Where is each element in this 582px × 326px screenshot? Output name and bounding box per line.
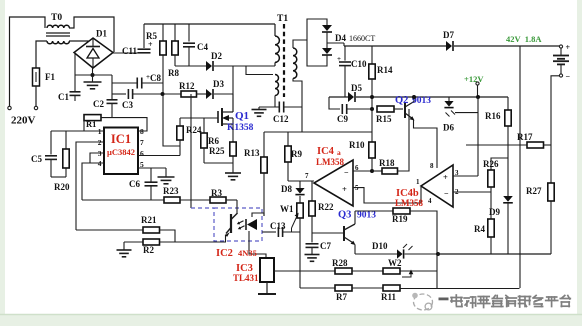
wire sense row [438, 253, 551, 255]
wire secondary rail [344, 45, 446, 47]
label C8 [150, 73, 161, 83]
transformer T1 primary [275, 24, 279, 66]
wire pin2 [76, 142, 104, 230]
wire top rail [144, 23, 275, 25]
pin 7 IC4a [305, 172, 309, 180]
svg-text:Q3: Q3 [338, 210, 351, 221]
wire clamp column [232, 66, 234, 112]
wire pin1 row [51, 130, 104, 132]
svg-text:D5: D5 [351, 83, 362, 93]
label W1 [280, 204, 294, 214]
label D5 [351, 83, 362, 93]
resistor R15 [372, 106, 403, 112]
label IC3 [233, 263, 259, 283]
resistor R1 [84, 115, 147, 131]
svg-text:IC1: IC1 [111, 132, 131, 146]
wire pin6 row2 [353, 169, 374, 173]
wire common rail [264, 131, 372, 133]
svg-text:C13: C13 [270, 221, 286, 231]
svg-text:R24: R24 [186, 125, 202, 135]
ground T1 aux [252, 107, 267, 116]
label C11 [122, 46, 138, 56]
wire 12V down [477, 97, 479, 176]
pin 8 [140, 127, 144, 136]
label D10 [372, 241, 388, 251]
capacitor C5 [45, 131, 57, 177]
resistor R12 [181, 91, 206, 97]
svg-text:C3: C3 [122, 100, 133, 110]
pin 4 [98, 159, 102, 168]
svg-text:C11: C11 [122, 46, 138, 56]
label F1 [45, 72, 55, 82]
resistor R7 [335, 285, 383, 291]
svg-text:IC2: IC2 [216, 248, 233, 259]
label R16 [485, 111, 501, 121]
wire vcc row [112, 93, 126, 95]
bridge rectifier D1 [74, 38, 113, 68]
pin 1 [98, 127, 104, 136]
svg-text:1660CT: 1660CT [349, 34, 375, 43]
shunt reg IC3 [258, 258, 276, 294]
svg-text:Q2: Q2 [395, 95, 408, 106]
resistor R25 [230, 124, 236, 173]
resistor R18 [372, 109, 409, 174]
LED IC2 [237, 213, 266, 258]
wire pin3 row [453, 175, 478, 177]
label R18 [379, 158, 395, 168]
label +12V [464, 74, 484, 84]
svg-text:−: − [566, 72, 571, 81]
wire pin4 [82, 163, 104, 200]
ground C7 [305, 255, 320, 262]
pin 3 [98, 149, 102, 158]
capacitor C4 [183, 24, 195, 66]
capacitor C11 [138, 24, 154, 53]
svg-text:R8: R8 [168, 68, 179, 78]
svg-text:+: + [443, 172, 448, 182]
svg-text:C6: C6 [129, 179, 140, 189]
label R28 [332, 258, 348, 268]
svg-text:F1: F1 [45, 72, 55, 82]
wire primary gnd row [75, 74, 112, 76]
diode D5 [348, 92, 508, 102]
pin 3 IC4b [455, 169, 459, 177]
svg-text:+: + [148, 40, 153, 49]
label D9 [489, 207, 500, 217]
resistor R3 [180, 197, 237, 203]
label IC4a [316, 146, 344, 167]
resistor R28 [335, 268, 383, 274]
label D8 [281, 184, 292, 194]
svg-text:7: 7 [140, 138, 144, 147]
svg-text:D7: D7 [443, 30, 454, 40]
pin 6 [140, 149, 144, 158]
resistor R17 [466, 142, 551, 148]
wire pin5 gnd [138, 167, 166, 169]
label R19 [392, 214, 408, 224]
svg-text:42V 1.8A: 42V 1.8A [506, 34, 542, 44]
label D2 [211, 51, 222, 61]
label D3 [213, 79, 224, 89]
diode D7 [446, 41, 561, 51]
svg-text:−: − [444, 189, 449, 198]
label R4 [474, 224, 485, 234]
svg-text:R28: R28 [332, 258, 348, 268]
junction 12V [476, 95, 480, 99]
watermark text [451, 295, 570, 308]
label R10 [349, 140, 365, 150]
svg-text:R6: R6 [208, 136, 219, 146]
svg-text:T1: T1 [277, 14, 288, 24]
resistor R2 [124, 239, 226, 245]
svg-text:+: + [337, 55, 341, 63]
label R17 [517, 132, 533, 142]
label Q1 [227, 110, 254, 133]
svg-text:W2: W2 [388, 258, 402, 268]
svg-text:R20: R20 [54, 182, 70, 192]
label IC4b [395, 188, 423, 208]
label R1 [86, 119, 96, 129]
optocoupler IC2 box [191, 208, 262, 241]
capacitor C13 [262, 227, 300, 237]
label IC2 [216, 248, 257, 259]
svg-text:R25: R25 [209, 146, 225, 156]
svg-text:8: 8 [430, 162, 434, 170]
label R6 [208, 136, 219, 146]
resistor R16 [505, 97, 511, 196]
transformer T1 secondary [293, 40, 307, 132]
svg-text:R15: R15 [376, 114, 392, 124]
pot W1 [292, 203, 304, 288]
svg-text:D6: D6 [443, 123, 454, 133]
label C6 [129, 179, 140, 189]
svg-text:C1: C1 [58, 92, 69, 102]
label IC1 [107, 132, 135, 157]
svg-text:−: − [344, 168, 349, 177]
junction [161, 92, 165, 96]
resistor R4 [488, 192, 494, 254]
pin 5 [140, 160, 144, 169]
svg-text:R19: R19 [392, 214, 408, 224]
label C5 [31, 154, 42, 164]
svg-text:D1: D1 [96, 29, 107, 39]
label R8 [168, 68, 179, 78]
label 220V [11, 115, 36, 127]
label 42V [506, 34, 542, 44]
svg-text:LM358: LM358 [395, 198, 423, 208]
svg-text:D2: D2 [211, 51, 222, 61]
svg-text:C2: C2 [93, 99, 104, 109]
svg-text:7: 7 [305, 172, 309, 180]
label R11 [381, 292, 397, 302]
terminal battery plus [559, 43, 570, 52]
capacitor C2 [107, 75, 118, 118]
ground R2 [117, 242, 132, 257]
svg-text:R9: R9 [291, 149, 302, 159]
svg-text:R1: R1 [86, 119, 96, 129]
svg-text:R23: R23 [163, 186, 179, 196]
junction D10 [436, 252, 440, 256]
label C12 [273, 114, 289, 124]
label R22 [318, 202, 334, 212]
pin 2 IC4b [455, 188, 459, 196]
svg-text:IC4: IC4 [317, 146, 335, 157]
diode D2 [206, 61, 275, 71]
svg-text:R4: R4 [474, 224, 485, 234]
svg-text:+: + [566, 43, 571, 52]
svg-text:R5: R5 [146, 31, 157, 41]
label C2 [93, 99, 104, 109]
capacitor C3 [128, 89, 181, 99]
label R25 [209, 146, 225, 156]
wire pin6 row [138, 146, 180, 156]
svg-text:9013: 9013 [357, 211, 376, 221]
svg-text:1: 1 [416, 178, 420, 186]
svg-text:6: 6 [140, 149, 144, 158]
watermark logo [412, 293, 448, 310]
wire vcc to opto [190, 94, 192, 208]
label W2 [388, 258, 402, 268]
transistor Q2 [405, 97, 437, 168]
label Q2 [395, 95, 431, 106]
capacitor C9 [329, 97, 374, 114]
label R15 [376, 114, 392, 124]
label R12 [179, 81, 195, 91]
svg-text:C4: C4 [197, 42, 208, 52]
label R20 [54, 182, 70, 192]
svg-text:+: + [342, 184, 347, 194]
op-amp U2A IC4a [314, 160, 353, 206]
resistor R5 [160, 24, 166, 94]
terminal AC L [8, 106, 11, 109]
wire snubber row [175, 65, 206, 67]
zener D6 [444, 97, 478, 117]
resistor R26 [488, 158, 508, 192]
svg-text:C9: C9 [337, 114, 348, 124]
svg-text:4N35: 4N35 [238, 248, 257, 258]
svg-text:C5: C5 [31, 154, 42, 164]
capacitor C6 [145, 168, 158, 200]
pin 7 [140, 138, 144, 147]
label R7 [336, 292, 347, 302]
terminal battery minus [551, 72, 571, 254]
svg-text:R7: R7 [336, 292, 347, 302]
resistor R11 [383, 285, 520, 291]
label T0 [51, 13, 62, 23]
label R24 [186, 125, 202, 135]
wire pin7 row [288, 181, 314, 183]
diode D10 [355, 244, 438, 259]
wire pin5 link [353, 187, 421, 203]
svg-text:D3: D3 [213, 79, 224, 89]
label C9 [337, 114, 348, 124]
resistor R27 [548, 183, 554, 201]
transformer T0 [36, 17, 114, 68]
svg-text:C10: C10 [351, 59, 367, 69]
wire aux rail [329, 96, 348, 98]
svg-text:R17: R17 [517, 132, 533, 142]
wire aux link [246, 66, 273, 75]
capacitor C12 [259, 102, 302, 113]
label R13 [244, 148, 260, 158]
svg-text:R21: R21 [141, 215, 157, 225]
label D4 [335, 33, 375, 43]
diode D4 [307, 19, 344, 66]
svg-text:W1: W1 [280, 204, 294, 214]
label R5 [146, 31, 157, 41]
junction R14 [370, 95, 374, 99]
wire IC3 row [274, 270, 335, 272]
resistor R24 [177, 118, 183, 146]
capacitor C8 [112, 73, 163, 89]
resistor R19 [355, 208, 437, 254]
IC U1 box [104, 128, 138, 175]
ground R25 [225, 173, 241, 180]
svg-text:R16: R16 [485, 111, 501, 121]
wire pin5 col to row [0, 0, 1, 1]
resistor R6 [201, 118, 233, 163]
svg-text:R26: R26 [483, 159, 499, 169]
transistor Q1 mosfet [218, 94, 233, 126]
svg-text:R12: R12 [179, 81, 195, 91]
diode D3 [206, 89, 233, 99]
svg-text:R27: R27 [526, 186, 542, 196]
label T1 [277, 14, 288, 24]
label R27 [526, 186, 542, 196]
label C4 [197, 42, 208, 52]
label R23 [163, 186, 179, 196]
svg-text:4: 4 [428, 197, 432, 205]
svg-text:R10: R10 [349, 140, 365, 150]
label C1 [58, 92, 69, 102]
wire aux rail down [163, 94, 180, 146]
label D7 [443, 30, 454, 40]
svg-text:K1358: K1358 [227, 123, 254, 133]
terminal 12V [476, 82, 479, 97]
svg-text:T0: T0 [51, 13, 62, 23]
svg-text:a: a [337, 148, 341, 157]
wire AC line left [10, 17, 46, 106]
ground pin5 [158, 168, 175, 184]
resistor R14 [369, 46, 375, 142]
svg-text:D10: D10 [372, 241, 388, 251]
svg-text:220V: 220V [11, 115, 36, 127]
svg-text:8: 8 [140, 127, 144, 136]
svg-text:TL431: TL431 [233, 273, 259, 283]
pin 2 [98, 138, 102, 147]
svg-text:D4: D4 [335, 33, 346, 43]
phototransistor IC2 [225, 200, 238, 242]
svg-text:LM358: LM358 [316, 157, 344, 167]
capacitor C1 [70, 53, 81, 102]
pin 8 IC4b [430, 162, 434, 170]
pin 6 IC4a [355, 164, 359, 172]
svg-text:R22: R22 [318, 202, 334, 212]
label Q3 [338, 210, 376, 221]
resistor R23 [82, 197, 180, 203]
svg-text:R11: R11 [381, 292, 397, 302]
wire Q1 drain [232, 94, 234, 112]
label R14 [377, 65, 393, 75]
junction bridge out [91, 73, 95, 77]
svg-text:R3: R3 [211, 188, 222, 198]
wire output down [519, 46, 521, 288]
terminal AC N [34, 106, 37, 109]
resistor R20 [63, 131, 69, 177]
label R26 [483, 159, 499, 169]
op-amp U2B IC4b [421, 165, 453, 207]
svg-text:μC3842: μC3842 [107, 147, 135, 157]
svg-text:R2: R2 [143, 245, 154, 255]
pin 4 IC4b [428, 197, 432, 205]
svg-text:R13: R13 [244, 148, 260, 158]
wire pin3 [90, 153, 104, 163]
wire divider low [300, 287, 335, 289]
svg-text:R18: R18 [379, 158, 395, 168]
wire C5 R20 join [51, 176, 66, 178]
fuse F1 [33, 68, 40, 106]
transistor Q3 [312, 211, 356, 254]
svg-text:D8: D8 [281, 184, 292, 194]
resistor R13 [261, 132, 267, 216]
label R9 [291, 149, 302, 159]
transformer T1 aux [275, 75, 279, 108]
resistor R9 [285, 132, 291, 181]
resistor R22 [309, 181, 315, 233]
svg-text:C12: C12 [273, 114, 289, 124]
svg-text:C7: C7 [320, 241, 331, 251]
label D6 [443, 123, 454, 133]
pin 5 IC4a [355, 184, 359, 192]
wire pin2 row [453, 191, 491, 193]
label C3 [122, 100, 133, 110]
svg-text:C8: C8 [150, 73, 161, 83]
wire C11 to bridge [113, 52, 141, 54]
pot W2 [383, 254, 437, 289]
label C7 [320, 241, 331, 251]
junction Q2 [412, 95, 416, 99]
diode D9 [503, 196, 513, 254]
ground bridge [84, 68, 102, 89]
transformer T1 core [283, 24, 285, 97]
svg-text:+12V: +12V [464, 74, 484, 84]
resistor R10 [369, 142, 375, 171]
battery [553, 48, 569, 74]
resistor R21 [76, 227, 175, 242]
label R2 [143, 245, 154, 255]
label D1 [96, 29, 107, 39]
wire gate row [180, 117, 218, 119]
capacitor C7 [306, 233, 319, 255]
label C10 [351, 59, 367, 69]
capacitor C10 [337, 46, 351, 97]
pin 1 IC4b [416, 178, 420, 186]
svg-text:R14: R14 [377, 65, 393, 75]
svg-text:Q1: Q1 [235, 110, 249, 122]
label R21 [141, 215, 157, 225]
label C13 [270, 221, 286, 231]
resistor R8 [172, 24, 178, 66]
diode D8 [295, 181, 304, 203]
label R3 [211, 188, 222, 198]
